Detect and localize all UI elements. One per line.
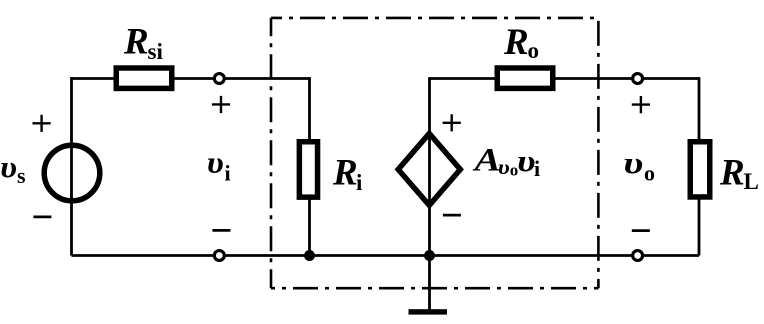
svg-text:A: A bbox=[472, 143, 500, 179]
output terminal top bbox=[633, 74, 643, 84]
svg-text:R: R bbox=[503, 22, 529, 63]
input terminal bottom bbox=[214, 251, 224, 261]
plus vo bbox=[632, 96, 650, 113]
junction node dep-source bottom bbox=[424, 250, 435, 261]
svg-text:L: L bbox=[744, 169, 759, 194]
resistor R_o bbox=[497, 68, 553, 88]
svg-text:si: si bbox=[148, 39, 164, 64]
svg-text:i: i bbox=[356, 170, 363, 195]
wire ground stub bbox=[428, 256, 431, 310]
input terminal top bbox=[214, 74, 224, 84]
wire R_o to output corner bbox=[553, 77, 699, 80]
svg-text:i: i bbox=[534, 156, 540, 181]
svg-text:R: R bbox=[719, 153, 745, 194]
output terminal bottom bbox=[633, 251, 643, 261]
minus vi bbox=[212, 229, 230, 232]
minus vs bbox=[33, 216, 51, 219]
plus vi bbox=[212, 96, 230, 113]
resistor R_i bbox=[299, 142, 317, 197]
svg-text:s: s bbox=[17, 163, 26, 188]
wire bottom rail bbox=[72, 254, 700, 257]
wire R_i bottom to bottom rail bbox=[308, 194, 311, 256]
resistor R_si bbox=[116, 68, 172, 88]
plus vs bbox=[33, 115, 51, 132]
svg-text:i: i bbox=[225, 161, 231, 186]
ground bbox=[409, 309, 448, 314]
wire dep-source top to R_o bbox=[430, 77, 498, 80]
minus vo bbox=[632, 229, 650, 232]
svg-text:υ: υ bbox=[498, 155, 510, 179]
wire top-left horizontal bbox=[72, 77, 117, 80]
wire R_si to input node bbox=[173, 77, 310, 80]
wire R_L bottom to bottom rail bbox=[698, 194, 701, 256]
svg-text:υ: υ bbox=[623, 145, 643, 180]
svg-text:υ: υ bbox=[0, 149, 17, 184]
junction node R_i bottom bbox=[304, 250, 315, 261]
svg-text:R: R bbox=[123, 22, 149, 63]
dependent source diamond bbox=[398, 134, 460, 206]
svg-text:υ: υ bbox=[517, 143, 536, 178]
wire dependent-source vertical bbox=[428, 77, 431, 255]
voltage source vs bbox=[44, 145, 100, 201]
wire left vertical through source bbox=[70, 77, 73, 255]
svg-text:R: R bbox=[332, 153, 358, 194]
plus dep-source bbox=[443, 114, 461, 131]
wire output corner down to R_L bbox=[698, 77, 701, 144]
minus dep-source bbox=[443, 214, 461, 217]
svg-text:o: o bbox=[644, 161, 655, 186]
svg-text:υ: υ bbox=[207, 145, 224, 180]
wire input corner down to R_i bbox=[308, 77, 311, 144]
svg-text:o: o bbox=[528, 38, 540, 63]
resistor R_L bbox=[690, 142, 710, 197]
amplifier dash-dot box bbox=[271, 18, 598, 288]
